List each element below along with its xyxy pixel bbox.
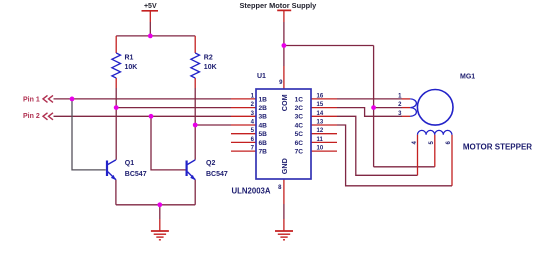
- svg-text:7C: 7C: [295, 149, 304, 156]
- svg-text:10K: 10K: [125, 64, 138, 71]
- svg-text:5B: 5B: [259, 131, 268, 138]
- svg-text:6C: 6C: [295, 140, 304, 147]
- svg-text:12: 12: [317, 128, 324, 134]
- svg-text:3B: 3B: [259, 114, 268, 121]
- svg-text:Stepper Motor Supply: Stepper Motor Supply: [240, 1, 318, 10]
- svg-text:2B: 2B: [259, 105, 268, 112]
- svg-text:ULN2003A: ULN2003A: [232, 187, 271, 196]
- svg-text:1B: 1B: [259, 96, 268, 103]
- svg-text:COM: COM: [280, 94, 289, 111]
- svg-text:MG1: MG1: [460, 73, 475, 80]
- svg-text:R2: R2: [204, 55, 213, 62]
- svg-text:+5V: +5V: [144, 3, 157, 10]
- svg-text:4B: 4B: [259, 122, 268, 129]
- svg-text:3C: 3C: [295, 114, 304, 121]
- svg-text:1C: 1C: [295, 96, 304, 103]
- svg-text:14: 14: [317, 111, 324, 117]
- svg-text:MOTOR STEPPER: MOTOR STEPPER: [463, 142, 532, 151]
- svg-text:GND: GND: [280, 158, 289, 174]
- svg-text:13: 13: [317, 120, 324, 126]
- svg-text:BC547: BC547: [125, 171, 147, 178]
- svg-text:6B: 6B: [259, 140, 268, 147]
- svg-text:4C: 4C: [295, 122, 304, 129]
- svg-text:15: 15: [317, 102, 324, 108]
- svg-text:Pin 2: Pin 2: [23, 113, 40, 120]
- svg-text:16: 16: [317, 93, 324, 99]
- svg-text:7B: 7B: [259, 149, 268, 156]
- svg-text:Q2: Q2: [206, 160, 215, 167]
- svg-text:Pin 1: Pin 1: [23, 96, 40, 103]
- svg-text:10K: 10K: [204, 64, 217, 71]
- svg-text:11: 11: [317, 137, 324, 143]
- svg-text:BC547: BC547: [206, 171, 228, 178]
- svg-text:U1: U1: [257, 73, 266, 80]
- svg-text:10: 10: [317, 146, 324, 152]
- svg-text:R1: R1: [125, 55, 134, 62]
- svg-text:2C: 2C: [295, 105, 304, 112]
- svg-text:Q1: Q1: [125, 160, 134, 167]
- svg-text:5C: 5C: [295, 131, 304, 138]
